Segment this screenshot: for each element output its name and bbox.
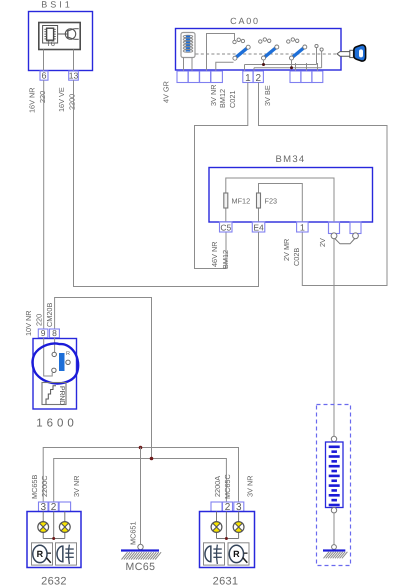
resistor dashes (329, 446, 340, 449)
svg-text:1: 1 (245, 73, 251, 84)
svg-text:MC65: MC65 (125, 561, 155, 573)
svg-text:F23: F23 (265, 197, 278, 206)
wire BSI1 module to pin 13 (73, 50, 75, 72)
svg-text:R: R (66, 351, 70, 357)
antenna legs (183, 58, 185, 72)
reversing lamp icon 2632 (32, 543, 53, 565)
svg-text:2V MR: 2V MR (282, 239, 291, 261)
svg-text:220: 220 (34, 314, 43, 326)
internal rail MF12 to socket (226, 178, 334, 222)
internal wire to pin 3 (207, 34, 235, 72)
wire to ground (333, 513, 335, 545)
junction dot SW3 (290, 66, 293, 69)
staircase symbol (46, 386, 56, 405)
svg-text:16V NR: 16V NR (28, 87, 37, 113)
fog lamp icon 2631 (204, 543, 225, 565)
junction dot row B to CM20B feed (150, 457, 154, 461)
fuse F23 (258, 208, 260, 222)
switch wiring inside 1600 (44, 338, 53, 376)
SW3 stem wire to pin 2 (291, 60, 293, 68)
empty pin of 2631 (211, 502, 222, 512)
lamp L1 of 2632 (39, 522, 47, 527)
CA00 right pin boxes (290, 71, 301, 83)
wire IC to transistor (58, 33, 66, 35)
ground symbol right (323, 549, 345, 551)
svg-text:C021: C021 (228, 91, 237, 108)
svg-text:2V: 2V (318, 238, 327, 247)
pin 2 of 2631 (223, 502, 233, 512)
switch lever SW3 (292, 47, 305, 58)
pin E4 of BM34 (252, 222, 264, 232)
fuse MF12 (225, 208, 227, 222)
resistor element box (326, 442, 344, 508)
pin 3 of 2632 (39, 502, 49, 512)
svg-text:1600: 1600 (36, 418, 78, 430)
BSI1 inner module box (39, 23, 80, 50)
socket right with contact (350, 222, 361, 234)
ground wire MC651 (140, 448, 142, 545)
svg-text:CM20B: CM20B (45, 303, 54, 327)
svg-text:1: 1 (300, 222, 305, 232)
CA00 pin boxes row (177, 71, 188, 83)
internal rail F23 to pin 1 (259, 184, 303, 223)
reversing lamp icon 2631 (228, 543, 249, 565)
rear lamp unit 2632 box (27, 512, 81, 568)
dashed boundary box (317, 405, 351, 566)
svg-text:2: 2 (256, 73, 262, 84)
ignition switch CA00 outer box (176, 29, 342, 71)
lamp wiring 2632 (42, 512, 44, 522)
junction dot 2632 (52, 537, 55, 540)
SW2 stem wire to pin 1 (263, 60, 265, 65)
switch contact circles SW1 (233, 40, 236, 43)
pin C5 of BM34 (220, 222, 233, 232)
svg-text:R: R (37, 549, 44, 559)
actuator bar blue (59, 353, 65, 371)
svg-text:BM12: BM12 (221, 250, 230, 269)
wire BSI1 pin6 to 1600 pin9 (43, 80, 45, 329)
svg-text:220: 220 (38, 91, 47, 103)
wire BSI1 module to pin 6 (43, 50, 45, 72)
lamp L2 of 2632 (61, 522, 69, 527)
junction dot 2631 (225, 537, 228, 540)
switch contact circles SW3 (287, 40, 290, 43)
svg-text:3V NR: 3V NR (72, 476, 81, 498)
connector circle top (331, 436, 336, 441)
wire CA00 pin1 to BM34 C5 (195, 83, 248, 269)
key symbol (337, 52, 351, 57)
svg-text:MC65C: MC65C (223, 474, 232, 499)
svg-text:2200C: 2200C (40, 475, 49, 497)
jumper strap between sockets (335, 239, 355, 244)
wire CA00 pin2 to BM34 pin1 (259, 83, 388, 286)
svg-text:9: 9 (41, 328, 46, 338)
junction dot SW2 (262, 63, 265, 66)
transponder antenna coil in CA00 (181, 33, 195, 58)
svg-text:MF12: MF12 (232, 197, 251, 206)
socket left with contact (329, 222, 340, 234)
rear lamp unit 2631 box (200, 512, 255, 568)
transistor U in BSI1 (65, 29, 75, 39)
right pin stubs (295, 63, 297, 71)
gear selector sub-box PRND (42, 383, 66, 405)
mechanical link dashed line (196, 53, 337, 55)
pin 9 of 1600 (38, 329, 48, 338)
svg-text:4V GR: 4V GR (162, 81, 171, 103)
empty pin of 2632 (59, 502, 71, 512)
pin 3 of 2631 (234, 502, 244, 512)
svg-text:MC65B: MC65B (30, 475, 39, 499)
wire BM34 E4 to BSI1 pin13 (74, 80, 259, 286)
svg-text:2631: 2631 (213, 576, 239, 586)
svg-text:MC651: MC651 (129, 521, 138, 545)
ground bus row A (43, 448, 238, 503)
svg-text:16V VE: 16V VE (57, 87, 66, 112)
pin 6 of BSI1 (40, 71, 48, 80)
pin 2 of CA00 (253, 71, 263, 83)
ground connector circle right (332, 545, 337, 550)
svg-text:E4: E4 (253, 222, 264, 232)
svg-text:C02B: C02B (292, 248, 301, 266)
svg-text:2200: 2200 (67, 94, 76, 110)
pin 1 of BM34 (297, 222, 309, 232)
lamp L1 of 2631 (213, 522, 221, 527)
fog lamp icon 2632 (56, 543, 77, 565)
svg-text:D: D (58, 400, 65, 405)
switch lever SW2 (264, 47, 277, 58)
hand-drawn blue ellipse annotation (33, 343, 79, 383)
svg-text:C5: C5 (220, 222, 231, 232)
svg-text:BM12: BM12 (218, 89, 227, 108)
svg-text:2200A: 2200A (213, 476, 222, 497)
svg-text:CA00: CA00 (230, 16, 260, 26)
svg-text:BSI1: BSI1 (41, 0, 73, 9)
lamp L2 of 2631 (235, 522, 243, 527)
lamp wiring 2631 (216, 512, 218, 522)
svg-text:T6: T6 (46, 39, 55, 48)
svg-text:3V BE: 3V BE (263, 85, 272, 106)
ground symbol MC65 (121, 549, 159, 551)
svg-text:BM34: BM34 (275, 154, 305, 165)
pin 13 of BSI1 (69, 71, 79, 80)
IC symbol in BSI1 (43, 26, 58, 44)
wire 1600 pin8 to splice CM20B to lamp feed (55, 298, 152, 459)
svg-text:3V NR: 3V NR (246, 476, 255, 498)
wire socket 2V down to resistor unit (333, 239, 335, 437)
reverse switch 1600 outer box (33, 339, 77, 410)
fuse box BM34 outer box (209, 168, 373, 223)
feed bus row B (54, 459, 227, 503)
SW1 stem wire (216, 62, 234, 71)
ground connector circle (138, 544, 143, 549)
pin 8 of 1600 (50, 329, 60, 338)
svg-text:6: 6 (41, 71, 46, 81)
junction dot row A to ground MC651 (139, 446, 143, 450)
svg-text:8: 8 (52, 328, 57, 338)
svg-text:13: 13 (69, 71, 79, 81)
switch contacts 1600 (52, 352, 56, 356)
pin 2 of 2632 (49, 502, 59, 512)
svg-text:2632: 2632 (41, 576, 67, 586)
svg-text:R: R (233, 549, 240, 559)
svg-text:10V NR: 10V NR (24, 310, 33, 336)
svg-text:46V NR: 46V NR (210, 241, 219, 267)
switch contact circles SW2 (259, 40, 262, 43)
pin 1 of CA00 (243, 71, 253, 83)
ECU BSI1 outer box (29, 12, 93, 71)
connector circle bottom (331, 508, 336, 513)
switch lever SW1 (235, 47, 248, 58)
svg-text:3V NR: 3V NR (209, 85, 218, 107)
